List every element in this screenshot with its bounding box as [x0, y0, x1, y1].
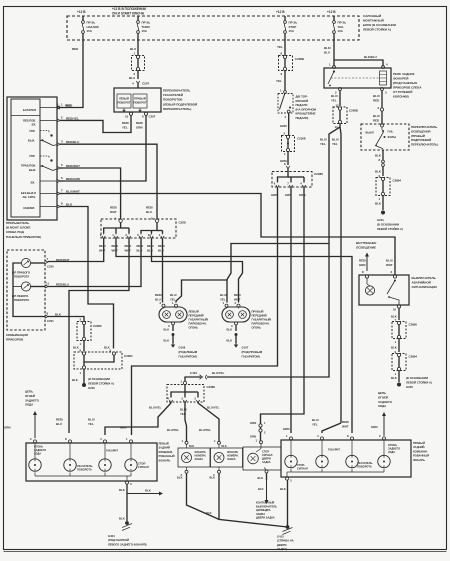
- svg-text:(В МОНТ. БЛОКЕ: (В МОНТ. БЛОКЕ: [6, 226, 31, 230]
- svg-text:ОТ РУЛЕВОЙ: ОТ РУЛЕВОЙ: [393, 90, 412, 94]
- svg-text:10: 10: [125, 115, 129, 119]
- svg-text:ПЕРЕКЛЮЧАТЕЛЬ): ПЕРЕКЛЮЧАТЕЛЬ): [411, 143, 438, 147]
- svg-text:BLK: BLK: [280, 487, 286, 491]
- svg-text:7: 7: [47, 257, 49, 261]
- svg-text:WHT: WHT: [125, 249, 132, 253]
- svg-text:10: 10: [148, 233, 152, 237]
- svg-text:КОМБИНИ-: КОМБИНИ-: [413, 449, 428, 453]
- svg-text:GRN: GRN: [280, 124, 287, 128]
- svg-text:RED: RED: [66, 104, 73, 108]
- svg-text:3: 3: [385, 91, 387, 95]
- svg-text:BLU: BLU: [56, 422, 62, 426]
- svg-text:ЛЕВОЙ СТОЙКИ А): ЛЕВОЙ СТОЙКИ А): [377, 227, 403, 231]
- svg-text:ХОДА: ХОДА: [388, 451, 395, 454]
- svg-text:ПОВОРОТА: ПОВОРОТА: [14, 275, 29, 279]
- svg-text:BLU/YEL: BLU/YEL: [207, 406, 220, 410]
- svg-text:ЦЕПЬ: ЦЕПЬ: [378, 391, 386, 395]
- svg-text:BLU/: BLU/: [332, 138, 339, 142]
- svg-text:ВНУТРЕННЕЕ: ВНУТРЕННЕЕ: [356, 241, 376, 245]
- svg-text:1: 1: [280, 89, 282, 93]
- svg-text:RED/: RED/: [342, 420, 349, 424]
- svg-text:C2280: C2280: [93, 324, 102, 328]
- svg-text:BLK: BLK: [72, 378, 78, 382]
- svg-text:C230E: C230E: [297, 137, 306, 141]
- svg-text:3: 3: [168, 324, 170, 328]
- svg-text:3: 3: [231, 324, 233, 328]
- svg-text:К/Л ЛЕВОГО: К/Л ЛЕВОГО: [12, 294, 28, 298]
- svg-text:ОГОНЬ: ОГОНЬ: [252, 326, 262, 330]
- svg-text:BLK: BLK: [55, 312, 62, 316]
- svg-text:BLK: BLK: [164, 339, 170, 343]
- svg-text:BLK: BLK: [177, 476, 183, 480]
- svg-text:ЗАДКА): ЗАДКА): [277, 547, 287, 551]
- svg-text:СЛЕВА ПОД: СЛЕВА ПОД: [6, 230, 25, 234]
- svg-text:9: 9: [281, 72, 283, 76]
- svg-text:GRN: GRN: [250, 435, 256, 439]
- svg-text:ОГОНЬ: ОГОНЬ: [189, 326, 199, 330]
- svg-text:WHT: WHT: [110, 210, 117, 214]
- svg-text:RED: RED: [72, 47, 79, 51]
- svg-text:1: 1: [286, 434, 288, 438]
- svg-text:ЗАДНЕГО: ЗАДНЕГО: [25, 398, 40, 402]
- svg-text:ПАРКОВОЧН.: ПАРКОВОЧН.: [252, 322, 270, 326]
- svg-text:ДВЕРИ: ДВЕРИ: [277, 543, 286, 547]
- svg-text:4: 4: [285, 115, 287, 119]
- svg-text:ЛЕВОЙ СТОЙКИ А): ЛЕВОЙ СТОЙКИ А): [406, 380, 432, 384]
- svg-text:15А: 15А: [87, 29, 93, 33]
- svg-text:C208: C208: [179, 221, 187, 225]
- svg-text:BLU: BLU: [146, 210, 152, 214]
- svg-text:BLU/: BLU/: [220, 293, 227, 297]
- svg-text:BLU: BLU: [155, 298, 161, 302]
- svg-text:ГАБАРИТНЫЙ/: ГАБАРИТНЫЙ/: [252, 318, 272, 322]
- svg-text:RED/GRN: RED/GRN: [66, 177, 80, 181]
- svg-text:2: 2: [264, 431, 266, 435]
- svg-text:BLK: BLK: [73, 346, 79, 350]
- svg-text:4: 4: [100, 437, 102, 441]
- svg-text:2: 2: [30, 437, 32, 441]
- svg-text:ПОВОРОТА: ПОВОРОТА: [14, 298, 29, 302]
- svg-text:ПРИБОРОВ СЛЕВА: ПРИБОРОВ СЛЕВА: [393, 86, 422, 90]
- svg-text:ON И START КЛЮЧА: ON И START КЛЮЧА: [112, 12, 145, 16]
- svg-text:СИГНАЛ: СИГНАЛ: [138, 465, 149, 469]
- svg-text:ЗАДНИЙ: ЗАДНИЙ: [159, 446, 171, 450]
- svg-text:ПЕРЕКЛЮЧАТЕЛЬ): ПЕРЕКЛЮЧАТЕЛЬ): [163, 107, 191, 111]
- svg-text:8: 8: [379, 158, 381, 162]
- svg-text:ПЕРЕКЛЮЧАТЕЛЬ: ПЕРЕКЛЮЧАТЕЛЬ: [163, 89, 191, 93]
- svg-text:GRN: GRN: [283, 427, 289, 431]
- svg-text:ЛЕВОГО ЗАДНЕГО ФОНАРЯ): ЛЕВОГО ЗАДНЕГО ФОНАРЯ): [108, 542, 147, 546]
- svg-text:BLK/: BLK/: [324, 46, 331, 50]
- svg-text:ГАБ.: ГАБ.: [388, 130, 394, 134]
- svg-text:GRN: GRN: [271, 193, 277, 197]
- svg-text:RED/WHT: RED/WHT: [56, 258, 70, 262]
- svg-text:1: 1: [80, 342, 82, 346]
- svg-text:BLK: BLK: [258, 487, 264, 491]
- svg-text:АВ. СИГН.: АВ. СИГН.: [23, 195, 37, 199]
- svg-text:RED/YEL: RED/YEL: [66, 116, 79, 120]
- svg-text:МОНТАЖНЫЙ: МОНТАЖНЫЙ: [363, 19, 384, 23]
- svg-text:ГАБАРИТОМ): ГАБАРИТОМ): [242, 354, 260, 358]
- svg-text:3: 3: [130, 482, 132, 486]
- svg-text:ПАРКОВОЧН.: ПАРКОВОЧН.: [189, 322, 207, 326]
- svg-text:BLU/YEL: BLU/YEL: [149, 406, 162, 410]
- svg-text:RED/: RED/: [158, 244, 165, 248]
- svg-text:C207: C207: [149, 115, 156, 119]
- svg-text:ВХ.: ВХ.: [31, 180, 36, 184]
- svg-text:ОСВЕЩЕНИЕ: ОСВЕЩЕНИЕ: [356, 246, 376, 250]
- svg-text:(ПОД ЛЕВЫМ: (ПОД ЛЕВЫМ: [179, 350, 198, 354]
- svg-text:КОНТАКТНЫЙ: КОНТАКТНЫЙ: [256, 501, 274, 505]
- svg-text:ФОНАРЬ: ФОНАРЬ: [413, 458, 425, 462]
- svg-text:6: 6: [137, 233, 139, 237]
- svg-text:(ПОД ПРАВЫМ: (ПОД ПРАВЫМ: [242, 350, 263, 354]
- svg-text:YEL: YEL: [122, 126, 128, 130]
- svg-text:ЛЕВОЙ СТОЙКИ А): ЛЕВОЙ СТОЙКИ А): [363, 28, 391, 32]
- svg-text:7: 7: [61, 189, 63, 193]
- svg-text:C2284: C2284: [124, 354, 133, 358]
- svg-text:BLK/BLU: BLK/BLU: [364, 55, 377, 59]
- svg-text:ХОДА: ХОДА: [34, 452, 41, 455]
- svg-text:ОГНЕЙ: ОГНЕЙ: [378, 395, 388, 399]
- svg-text:G201: G201: [377, 218, 384, 222]
- svg-text:C2895: C2895: [409, 323, 418, 327]
- svg-text:4: 4: [132, 82, 134, 86]
- svg-text:ЛЕВОЙ СТОЙКИ А): ЛЕВОЙ СТОЙКИ А): [88, 381, 114, 385]
- svg-text:C2286: C2286: [207, 385, 216, 389]
- svg-text:ПЕДАЛИ): ПЕДАЛИ): [296, 116, 309, 120]
- svg-text:1: 1: [379, 197, 381, 201]
- svg-text:1: 1: [329, 63, 331, 67]
- svg-text:BLK: BLK: [145, 489, 151, 493]
- svg-text:RED/: RED/: [147, 244, 154, 248]
- svg-text:C2894: C2894: [393, 179, 402, 183]
- svg-text:RED/: RED/: [56, 418, 63, 422]
- svg-text:BLU/: BLU/: [170, 293, 177, 297]
- svg-text:RED: RED: [373, 99, 379, 103]
- svg-text:СТОП-: СТОП-: [138, 462, 146, 466]
- svg-text:GRN: GRN: [120, 426, 126, 430]
- svg-text:САЛОННЫЙ: САЛОННЫЙ: [363, 14, 381, 18]
- svg-text:4: 4: [386, 63, 388, 67]
- svg-text:6: 6: [274, 182, 276, 186]
- svg-text:ЗАДНЕГО: ЗАДНЕГО: [378, 400, 393, 404]
- svg-text:WHT: WHT: [99, 249, 106, 253]
- svg-text:YEL: YEL: [332, 142, 338, 146]
- svg-text:3: 3: [61, 139, 63, 143]
- svg-text:5: 5: [61, 163, 63, 167]
- svg-text:ПРИБОРОВ: ПРИБОРОВ: [6, 338, 24, 342]
- svg-text:C205: C205: [47, 265, 54, 269]
- svg-text:ПЕРЕКЛЮЧАТЕЛЬ: ПЕРЕКЛЮЧАТЕЛЬ: [411, 125, 437, 129]
- svg-text:2: 2: [61, 116, 63, 120]
- svg-text:RED/: RED/: [110, 206, 117, 210]
- svg-text:2: 2: [391, 270, 393, 274]
- svg-text:10А: 10А: [142, 29, 148, 33]
- svg-text:(В ОСНОВАНИИ: (В ОСНОВАНИИ: [88, 377, 110, 381]
- svg-text:BLU/: BLU/: [373, 114, 380, 118]
- svg-text:G404: G404: [108, 534, 115, 538]
- svg-text:ЗАДНИЙ: ЗАДНИЙ: [413, 445, 425, 449]
- svg-text:YEL: YEL: [312, 423, 318, 427]
- svg-text:ДВЕРИ ЗАДКА: ДВЕРИ ЗАДКА: [256, 516, 275, 520]
- svg-text:ЗАМКА: ЗАМКА: [256, 512, 265, 516]
- svg-text:ФОНАРЕЙ: ФОНАРЕЙ: [393, 77, 408, 81]
- svg-text:ЦИЛИНДРА: ЦИЛИНДРА: [256, 508, 271, 512]
- svg-text:УКАЗАТЕЛЕЙ: УКАЗАТЕЛЕЙ: [163, 93, 183, 97]
- svg-text:BLK: BLK: [227, 339, 233, 343]
- svg-text:(ПОД ПАНЕЛЬЮ: (ПОД ПАНЕЛЬЮ: [393, 81, 417, 85]
- svg-text:GRN: GRN: [359, 263, 365, 267]
- svg-text:GRN: GRN: [4, 426, 10, 430]
- svg-text:BLU/: BLU/: [331, 94, 338, 98]
- svg-text:BLK: BLK: [119, 488, 125, 492]
- svg-text:2: 2: [160, 301, 162, 305]
- svg-text:G107: G107: [242, 346, 249, 350]
- svg-text:8: 8: [347, 434, 349, 438]
- svg-text:ПОВОРОТОВ: ПОВОРОТОВ: [163, 98, 183, 102]
- svg-text:BLU: BLU: [324, 51, 330, 55]
- svg-text:ФАРЫ: ФАРЫ: [388, 135, 397, 139]
- svg-text:1: 1: [284, 152, 286, 156]
- svg-text:ГАБАРИТОМ): ГАБАРИТОМ): [179, 354, 197, 358]
- svg-text:BLK: BLK: [375, 170, 382, 174]
- svg-text:BLU/: BLU/: [312, 418, 319, 422]
- svg-text:ПРАВЫЙ: ПРАВЫЙ: [413, 441, 425, 445]
- svg-text:ПРАВ.ПОВ.: ПРАВ.ПОВ.: [21, 163, 36, 167]
- svg-text:БЛОК (В ОСНОВАНИИ: БЛОК (В ОСНОВАНИИ: [363, 23, 396, 27]
- svg-text:+12 В В ПОЛОЖЕНИИ: +12 В В ПОЛОЖЕНИИ: [112, 7, 147, 11]
- svg-text:GRN: GRN: [136, 126, 142, 130]
- svg-text:ПЕРЕДНИЙ: ПЕРЕДНИЙ: [189, 314, 204, 318]
- svg-text:BLK: BLK: [210, 476, 216, 480]
- svg-text:1: 1: [256, 439, 258, 443]
- svg-text:BLU/YEL: BLU/YEL: [199, 428, 211, 432]
- svg-text:10: 10: [393, 308, 397, 312]
- svg-text:RED: RED: [373, 119, 379, 123]
- svg-text:BLK: BLK: [391, 376, 397, 380]
- svg-text:8: 8: [281, 52, 283, 56]
- svg-text:8: 8: [47, 312, 49, 316]
- svg-text:ЗНАКА: ЗНАКА: [227, 458, 236, 461]
- svg-text:УКАЗАТЕЛЬ: УКАЗАТЕЛЬ: [357, 461, 373, 465]
- svg-text:G106: G106: [179, 346, 186, 350]
- svg-text:СТОП-: СТОП-: [297, 463, 305, 467]
- svg-text:УПР.: УПР.: [29, 154, 35, 158]
- svg-text:1: 1: [182, 439, 184, 443]
- svg-text:ЛЕВЫЙ: ЛЕВЫЙ: [189, 310, 199, 314]
- svg-text:2: 2: [379, 434, 381, 438]
- svg-text:1: 1: [395, 340, 397, 344]
- svg-text:+12 В: +12 В: [77, 10, 86, 14]
- svg-text:C2894: C2894: [409, 355, 418, 359]
- svg-text:G200: G200: [88, 386, 95, 390]
- svg-text:3: 3: [290, 479, 292, 483]
- svg-text:6: 6: [142, 115, 144, 119]
- svg-text:BLK: BLK: [391, 346, 397, 350]
- svg-text:ЛЕВЫЙ: ЛЕВЫЙ: [159, 442, 169, 446]
- svg-text:РОВАННЫЙ: РОВАННЫЙ: [413, 454, 429, 458]
- svg-text:BLU: BLU: [130, 47, 136, 51]
- svg-text:ПОВОРОТ: ПОВОРОТ: [117, 101, 130, 105]
- svg-text:G200: G200: [406, 385, 413, 389]
- svg-text:1: 1: [264, 421, 266, 425]
- svg-text:4: 4: [317, 434, 319, 438]
- svg-text:1: 1: [61, 103, 63, 107]
- svg-text:WHT: WHT: [112, 249, 119, 253]
- svg-text:ЦЕПЬ: ЦЕПЬ: [25, 390, 33, 394]
- svg-text:ГАБАРИТ: ГАБАРИТ: [106, 449, 118, 453]
- svg-text:ПОВОРОТ: ПОВОРОТ: [133, 101, 146, 105]
- svg-text:2: 2: [100, 233, 102, 237]
- svg-text:СИГНАЛИЗАЦИИ: СИГНАЛИЗАЦИИ: [412, 285, 437, 289]
- svg-text:BLK: BLK: [119, 517, 125, 521]
- svg-text:YEL: YEL: [331, 99, 337, 103]
- svg-text:ПЕРЕДНИЙ: ПЕРЕДНИЙ: [252, 314, 267, 318]
- svg-text:1: 1: [172, 301, 174, 305]
- svg-text:7: 7: [287, 182, 289, 186]
- svg-text:BLK: BLK: [222, 445, 227, 448]
- svg-text:4: 4: [300, 182, 302, 186]
- svg-text:РОВАННЫЙ: РОВАННЫЙ: [159, 454, 175, 458]
- svg-text:RED/: RED/: [137, 244, 144, 248]
- svg-text:BLK: BLK: [164, 328, 170, 332]
- svg-text:2: 2: [378, 106, 380, 110]
- svg-text:BLK: BLK: [375, 202, 382, 206]
- svg-text:ФОНАРЬ: ФОНАРЬ: [159, 458, 171, 462]
- svg-text:2: 2: [80, 318, 82, 322]
- svg-text:БЕЗ.ВЫХ.Л: БЕЗ.ВЫХ.Л: [21, 191, 36, 195]
- svg-text:1: 1: [214, 439, 216, 443]
- svg-text:ЗАДКА: ЗАДКА: [262, 461, 271, 464]
- svg-text:WHT: WHT: [342, 425, 349, 429]
- svg-text:(В ОСНОВАНИИ: (В ОСНОВАНИИ: [406, 376, 428, 380]
- svg-text:C207: C207: [142, 82, 150, 86]
- svg-text:BLU: BLU: [129, 76, 135, 80]
- svg-text:1: 1: [181, 380, 183, 384]
- svg-text:3: 3: [181, 397, 183, 401]
- svg-text:ХОДА: ХОДА: [378, 404, 387, 408]
- svg-text:(ЛЕВЫЙ ПОДРУЛЕВОЙ: (ЛЕВЫЙ ПОДРУЛЕВОЙ: [163, 102, 197, 106]
- svg-text:WHT: WHT: [386, 263, 393, 267]
- svg-text:ОСВЕЩЕНИЯ: ОСВЕЩЕНИЯ: [411, 129, 430, 133]
- svg-text:15А: 15А: [289, 29, 295, 33]
- svg-text:ПРЕРЫВАТЕЛЬ: ПРЕРЫВАТЕЛЬ: [6, 221, 30, 225]
- svg-text:ВЫХ.: ВЫХ.: [28, 138, 35, 142]
- svg-text:RED/: RED/: [234, 293, 241, 297]
- svg-text:КОМБИНИ-: КОМБИНИ-: [159, 450, 174, 454]
- svg-text:6: 6: [61, 176, 63, 180]
- svg-text:ХОДА: ХОДА: [25, 403, 34, 407]
- svg-text:8: 8: [61, 202, 63, 206]
- svg-text:ЗНАКА: ЗНАКА: [195, 458, 204, 461]
- svg-text:RED/: RED/: [99, 244, 106, 248]
- svg-text:BLK: BLK: [227, 328, 233, 332]
- svg-text:КОЛОНКИ): КОЛОНКИ): [393, 95, 409, 99]
- svg-text:BLK: BLK: [375, 154, 382, 158]
- svg-text:ГАБАРИТ: ГАБАРИТ: [328, 448, 340, 452]
- svg-text:WHT: WHT: [234, 298, 241, 302]
- svg-text:GRN: GRN: [371, 425, 377, 429]
- svg-text:4: 4: [159, 233, 161, 237]
- svg-text:RED/: RED/: [112, 244, 119, 248]
- svg-text:C208B: C208B: [295, 57, 304, 61]
- svg-text:GRN: GRN: [250, 421, 256, 425]
- svg-text:RED/: RED/: [122, 121, 129, 125]
- svg-text:C404: C404: [190, 371, 197, 375]
- svg-text:3: 3: [125, 233, 127, 237]
- svg-text:BLK: BLK: [189, 445, 194, 448]
- svg-text:G413: G413: [277, 535, 284, 539]
- svg-text:8: 8: [65, 437, 67, 441]
- svg-text:BLU/: BLU/: [386, 259, 393, 263]
- svg-text:RED/: RED/: [146, 206, 153, 210]
- svg-text:ВХ.: ВХ.: [32, 122, 37, 126]
- svg-text:C2286: C2286: [314, 172, 323, 176]
- svg-text:2: 2: [284, 132, 286, 136]
- svg-text:УПР.: УПР.: [29, 129, 35, 133]
- svg-text:2: 2: [194, 397, 196, 401]
- svg-text:BLK: BLK: [206, 511, 212, 515]
- svg-text:4: 4: [167, 397, 169, 401]
- svg-text:+12 В: +12 В: [327, 10, 336, 14]
- svg-text:RED/: RED/: [125, 244, 132, 248]
- svg-text:(ПОД СБОРКОЙ: (ПОД СБОРКОЙ: [108, 538, 129, 542]
- svg-text:+12 В: +12 В: [276, 10, 285, 14]
- svg-text:1: 1: [80, 371, 82, 375]
- svg-text:ЛЕВ.ПОВ.: ЛЕВ.ПОВ.: [23, 119, 36, 123]
- svg-text:C201: C201: [47, 319, 54, 323]
- svg-text:BLU/: BLU/: [88, 418, 95, 422]
- svg-text:ПАНЕЛЬЮ ПРИБОРОВ): ПАНЕЛЬЮ ПРИБОРОВ): [6, 235, 41, 239]
- svg-text:ВЫКЛ: ВЫКЛ: [366, 131, 374, 135]
- svg-text:10А: 10А: [338, 29, 344, 33]
- svg-text:8: 8: [362, 270, 364, 274]
- svg-text:BLU/YEL: BLU/YEL: [212, 371, 225, 375]
- svg-text:ПОДРУЛЕВОЙ: ПОДРУЛЕВОЙ: [411, 138, 431, 142]
- svg-text:ВЫКЛЮЧАТЕЛЬ: ВЫКЛЮЧАТЕЛЬ: [256, 504, 277, 508]
- svg-text:YEL: YEL: [320, 142, 326, 146]
- svg-text:YEL: YEL: [170, 298, 176, 302]
- svg-text:ЛЕВЫЙ: ЛЕВЫЙ: [119, 97, 129, 101]
- svg-text:КОМБИНАЦИЯ: КОМБИНАЦИЯ: [6, 333, 28, 337]
- svg-text:2: 2: [235, 301, 237, 305]
- svg-text:1: 1: [134, 52, 136, 56]
- svg-text:11: 11: [46, 282, 49, 286]
- svg-text:(ПРАВЫЙ: (ПРАВЫЙ: [411, 134, 425, 138]
- svg-text:(СПРАВА НА: (СПРАВА НА: [277, 539, 294, 543]
- svg-text:YEL: YEL: [220, 298, 226, 302]
- svg-text:BLU/: BLU/: [373, 94, 380, 98]
- svg-text:РЕЛЕ ЗАДНИХ: РЕЛЕ ЗАДНИХ: [393, 72, 415, 76]
- svg-text:ПРАВЫЙ: ПРАВЫЙ: [134, 97, 146, 101]
- svg-text:YEL: YEL: [276, 79, 282, 83]
- svg-text:C208B: C208B: [349, 109, 358, 113]
- svg-text:К/Л ПРАВОГО: К/Л ПРАВОГО: [12, 271, 30, 275]
- svg-text:ВЫКЛЮЧАТЕЛЬ: ВЫКЛЮЧАТЕЛЬ: [412, 276, 437, 280]
- svg-text:BLU/: BLU/: [180, 408, 187, 412]
- svg-text:ГАБАРИТНЫЙ/: ГАБАРИТНЫЙ/: [189, 318, 209, 322]
- svg-text:RED/: RED/: [155, 293, 162, 297]
- svg-text:YEL: YEL: [277, 45, 283, 49]
- svg-text:1: 1: [126, 437, 128, 441]
- svg-text:BLU/: BLU/: [320, 138, 327, 142]
- svg-text:ВЫХ.: ВЫХ.: [29, 168, 36, 172]
- svg-text:1: 1: [112, 233, 114, 237]
- svg-text:RED/BLU: RED/BLU: [56, 283, 69, 287]
- svg-text:ОГНЕЙ: ОГНЕЙ: [25, 394, 35, 398]
- svg-text:RED/: RED/: [359, 259, 366, 263]
